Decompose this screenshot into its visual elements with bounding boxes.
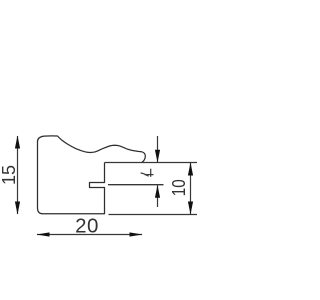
dimension 15 arrow bottom	[15, 202, 20, 215]
moulding profile outline	[38, 136, 146, 214]
dimension 10 line	[190, 163, 192, 215]
svg-text:15: 15	[0, 165, 19, 185]
dimension 10 arrow bottom	[188, 202, 193, 215]
dimension 4 lower arrow	[155, 185, 160, 198]
dimension 15 line	[17, 136, 19, 214]
rabbet depth line	[108, 184, 164, 186]
rabbet ledge line	[105, 162, 198, 164]
dimension 10 arrow top	[188, 163, 193, 176]
dimension 4 lower line	[157, 186, 159, 208]
dimension 4 upper line	[157, 136, 159, 162]
svg-text:20: 20	[75, 215, 99, 238]
dimension 4 label (open CAD-style glyph drawn as strokes)	[141, 169, 154, 177]
svg-text:10: 10	[169, 179, 189, 196]
dimension 20 arrow left	[37, 232, 50, 236]
bottom extension line	[109, 214, 198, 216]
dimension 4 upper arrow	[155, 150, 160, 163]
dimension 20 arrow right	[130, 232, 143, 236]
dimension 15 arrow top	[15, 136, 20, 149]
dimension 20 line	[37, 234, 142, 236]
